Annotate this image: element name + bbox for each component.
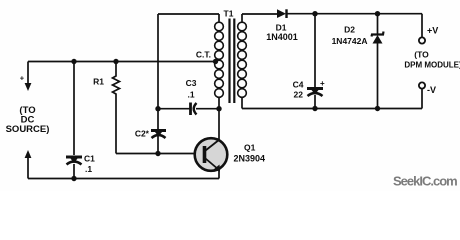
- junction: bottom output rail / D2: [375, 106, 380, 111]
- svg-text:C1: C1: [84, 154, 95, 164]
- resistor R1: [113, 62, 120, 97]
- wire: C3 link from feedback column to collector column: [158, 108, 219, 110]
- svg-text:+: +: [20, 73, 25, 82]
- svg-text:+V: +V: [427, 26, 438, 36]
- wire: bottom output rail (secondary return): [242, 108, 422, 110]
- svg-text:Q1: Q1: [244, 143, 256, 153]
- junction: top rail / C1: [71, 59, 76, 64]
- svg-text:D2: D2: [344, 25, 355, 35]
- wire: base rail from R1 to Q1 base: [116, 153, 203, 155]
- svg-text:SeekIC.com: SeekIC.com: [393, 174, 457, 189]
- svg-text:1N4742A: 1N4742A: [332, 36, 368, 46]
- junction: top output rail / C4: [312, 11, 317, 16]
- svg-text:C4: C4: [293, 80, 304, 90]
- wire: bottom rail (emitter return): [28, 178, 219, 180]
- svg-text:22: 22: [294, 90, 304, 100]
- capacitor C1: [66, 157, 82, 165]
- wire: +V drop: [421, 14, 423, 38]
- svg-text:(TO: (TO: [414, 50, 429, 60]
- svg-text:C3: C3: [186, 78, 197, 88]
- svg-text:C.T.: C.T.: [196, 50, 211, 60]
- svg-text:DPM MODULE): DPM MODULE): [404, 61, 460, 70]
- junction: base rail / C2*: [155, 151, 160, 156]
- svg-text:.1: .1: [187, 90, 194, 100]
- junction: primary bottom / C3 / collector: [216, 106, 221, 111]
- svg-text:.1: .1: [85, 164, 92, 174]
- secondary winding lead (top): [241, 14, 243, 23]
- secondary winding lead (bottom): [241, 97, 243, 109]
- wire: D1 cathode to +V corner: [287, 13, 423, 15]
- wire: -V drop to bottom output rail: [421, 89, 423, 109]
- wire: feedback top to transformer primary: [158, 13, 219, 15]
- junction: feedback column / C3 wire: [155, 106, 160, 111]
- wire: secondary top to D1: [242, 13, 277, 15]
- diode D1: [277, 9, 287, 18]
- wire: D2 branch vertical: [377, 14, 379, 109]
- junction: bottom rail / C1: [71, 176, 76, 181]
- capacitor C2*: [151, 131, 166, 139]
- svg-text:2N3904: 2N3904: [234, 154, 266, 164]
- capacitor C4: [307, 89, 323, 97]
- wire: feedback column (transformer top to base): [157, 14, 159, 154]
- svg-text:D1: D1: [276, 23, 287, 33]
- svg-text:1N4001: 1N4001: [266, 32, 298, 42]
- junction: bottom output rail / C4: [312, 106, 317, 111]
- junction: top rail / R1: [113, 59, 118, 64]
- primary winding: [215, 22, 224, 97]
- primary winding lead (top): [218, 14, 220, 23]
- capacitor C3: [191, 103, 197, 116]
- wire: top rail from input to transformer center tap: [28, 61, 217, 63]
- wire: collector up to primary: [218, 109, 220, 140]
- emitter inner line: [206, 159, 219, 170]
- secondary winding: [238, 22, 247, 97]
- core: [228, 19, 230, 104]
- zener diode D2: [372, 32, 384, 44]
- svg-text:-V: -V: [427, 85, 436, 95]
- terminal -V: [419, 82, 425, 88]
- collector inner line: [206, 140, 220, 151]
- junction: center tap: [213, 59, 218, 64]
- transistor Q1: [195, 138, 228, 171]
- svg-text:C2*: C2*: [135, 129, 150, 139]
- terminal +V: [419, 37, 425, 43]
- primary winding lead (bottom): [218, 97, 220, 109]
- svg-text:R1: R1: [93, 77, 104, 87]
- transformer T1: [215, 14, 247, 109]
- base bar: [203, 146, 207, 163]
- wire: negative input arrow pointing up: [27, 157, 29, 179]
- svg-text:SOURCE): SOURCE): [6, 124, 50, 135]
- junction: top output rail / D2: [375, 11, 380, 16]
- wire: positive input arrow pointing down: [27, 62, 29, 85]
- svg-text:T1: T1: [224, 9, 234, 19]
- svg-text:+: +: [320, 79, 325, 88]
- wire: C4 branch vertical: [314, 14, 316, 109]
- wire: C1 branch vertical: [73, 62, 75, 179]
- wire: emitter down to bottom rail: [218, 170, 220, 179]
